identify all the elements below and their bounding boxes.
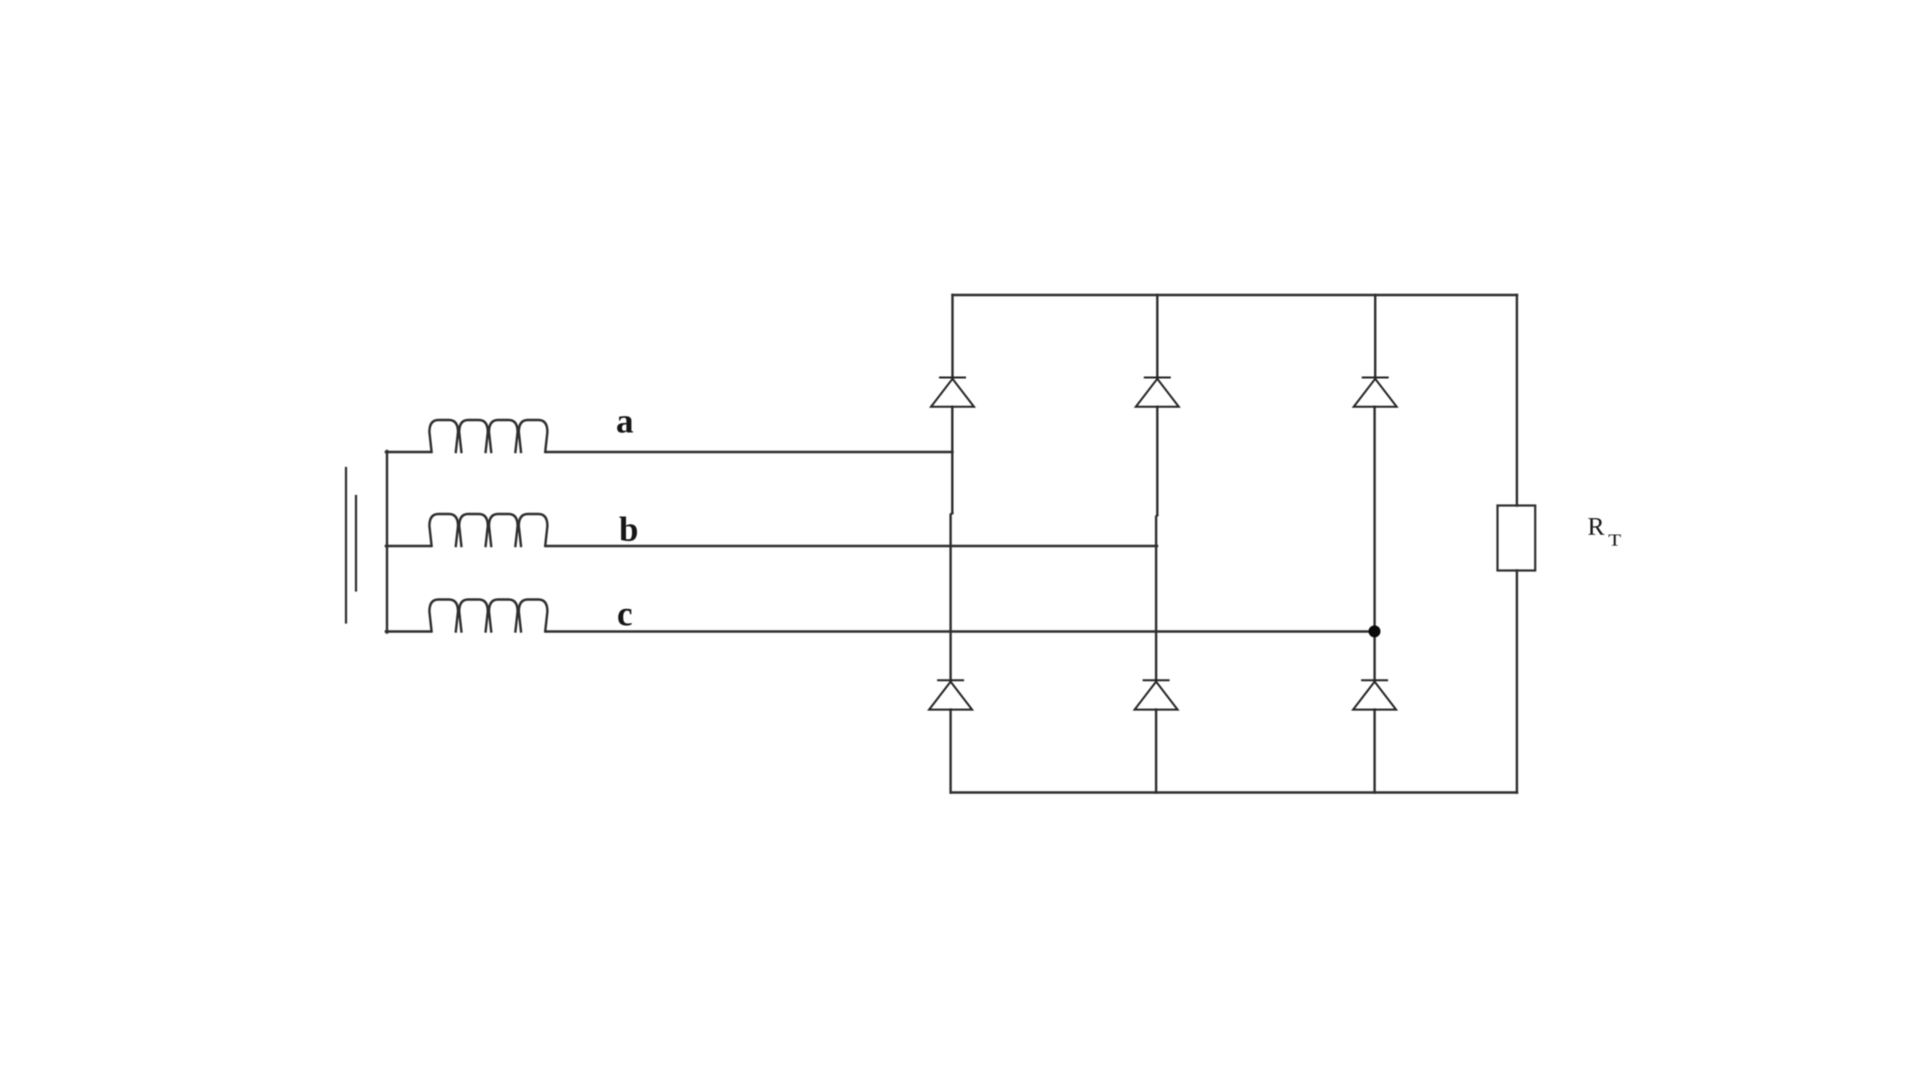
wire: leg 3 middle (D3 through node to D6) xyxy=(1373,407,1375,681)
wire: leg 3 upper (top rail to D3) xyxy=(1374,295,1376,378)
label phase a xyxy=(617,416,633,433)
wire: leg 2 upper (top rail to D2) xyxy=(1156,295,1158,378)
source bar short (inner vertical stroke) xyxy=(355,496,357,591)
wire: top rail (positive DC bus) xyxy=(953,294,1518,296)
wire: bottom rail (negative DC bus) xyxy=(951,791,1517,793)
wire: phase c stub from bus to inductor xyxy=(386,630,430,632)
node: junction of phase c and leg 3 xyxy=(1369,625,1381,637)
label phase c xyxy=(618,609,632,626)
wire: left bus vertical xyxy=(386,451,388,633)
wire: phase b stub from bus to inductor xyxy=(386,545,430,547)
wire: leg 1 middle lower (jog to D4) xyxy=(951,513,953,680)
wire: leg 1 lower (D4 to bottom rail) xyxy=(949,710,951,793)
diode D1 (top, leg 1) xyxy=(931,378,974,407)
wire: phase a to bridge leg 1 xyxy=(547,451,953,453)
diode D3 (top, leg 3) xyxy=(1354,378,1397,407)
inductor La (phase a) xyxy=(429,420,547,452)
wire: leg 2 lower (D5 to bottom rail) xyxy=(1155,710,1157,793)
inductor Lc (phase c) xyxy=(429,600,547,632)
label RT designator xyxy=(1588,518,1604,535)
wire: phase a stub from bus to inductor xyxy=(386,451,430,453)
wire: leg 1 upper (top rail to D1) xyxy=(951,295,953,378)
label phase b xyxy=(619,517,637,542)
wire: leg 3 lower (D6 to bottom rail) xyxy=(1373,710,1375,793)
wire: leg 2 middle (D2 to jog) xyxy=(1156,407,1158,515)
label RT subscript xyxy=(1609,535,1621,546)
wire: right branch lower (RT to bottom rail) xyxy=(1516,571,1518,793)
wire: leg 1 middle (D1 to jog) xyxy=(951,407,953,513)
diode D5 (bottom, leg 2) xyxy=(1135,680,1178,709)
wire: leg 2 middle lower (jog to D5) xyxy=(1156,515,1157,680)
inductor Lb (phase b) xyxy=(429,514,547,546)
wire: phase c to junction node xyxy=(547,630,1375,632)
resistor RT body xyxy=(1498,506,1536,571)
diode D2 (top, leg 2) xyxy=(1136,378,1179,407)
diode D4 (bottom, leg 1) xyxy=(929,680,972,709)
source bar long (left vertical stroke) xyxy=(345,468,347,623)
wire: right branch upper (top rail to RT) xyxy=(1516,295,1518,506)
wire: phase b to bridge leg 2 xyxy=(547,545,1157,547)
diode D6 (bottom, leg 3) xyxy=(1353,680,1396,709)
